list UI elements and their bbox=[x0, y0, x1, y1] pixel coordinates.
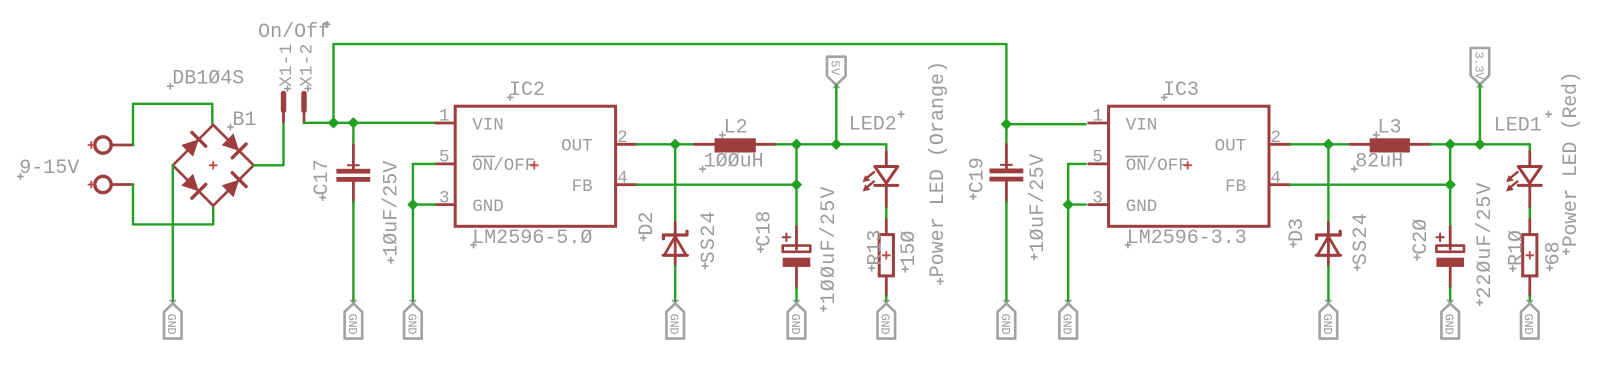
wire corner to LED1 bbox=[1529, 144, 1531, 152]
svg-text:FB: FB bbox=[572, 177, 593, 197]
wire 5V tag to net bbox=[835, 85, 837, 144]
pin 4 FB of IC3 bbox=[1269, 168, 1290, 188]
pin 3 GND of IC3 bbox=[1089, 188, 1109, 208]
svg-text:GND: GND bbox=[345, 314, 359, 335]
label Power LED (Orange) bbox=[927, 61, 950, 285]
svg-text:1: 1 bbox=[1092, 107, 1103, 127]
label 9-15V input bbox=[17, 157, 79, 180]
LED LED1 bbox=[1506, 152, 1541, 208]
svg-text:FB: FB bbox=[1225, 177, 1246, 197]
junction 3.3V net / supply tag bbox=[1475, 140, 1484, 149]
label C19 bbox=[967, 157, 990, 200]
ground symbol GND11 bbox=[1521, 300, 1539, 339]
wire down to C18 bbox=[795, 144, 797, 226]
supply symbol 3.3V bbox=[1471, 48, 1490, 88]
svg-text:82uH: 82uH bbox=[1355, 150, 1403, 173]
svg-text:R13: R13 bbox=[865, 230, 888, 266]
svg-text:X1-2: X1-2 bbox=[297, 44, 317, 87]
svg-text:GND: GND bbox=[1442, 314, 1456, 335]
svg-text:GND: GND bbox=[164, 314, 178, 335]
svg-text:3: 3 bbox=[1092, 188, 1103, 208]
svg-text:GND: GND bbox=[1060, 314, 1074, 335]
junction FB / C18 branch bbox=[792, 180, 801, 189]
wire down to D2 bbox=[674, 144, 676, 222]
pad P2 (input terminal -) bbox=[88, 176, 133, 192]
wire 3.3V tag to net bbox=[1479, 84, 1481, 144]
wire corner to LED2 bbox=[885, 144, 887, 152]
capacitor C17 bbox=[336, 145, 370, 202]
svg-text:4: 4 bbox=[1271, 168, 1282, 188]
wire riser to top rail bbox=[332, 44, 334, 123]
resistor R10 bbox=[1523, 219, 1537, 296]
capacitor C20 (electrolytic) bbox=[1436, 227, 1464, 289]
label IC3 bbox=[1161, 79, 1199, 102]
ground symbol GND3 bbox=[404, 300, 422, 339]
ground symbol GND9 bbox=[1320, 300, 1338, 339]
ground symbol GND4 bbox=[666, 300, 684, 339]
value SS24 bbox=[698, 211, 721, 269]
svg-text:LM2596-3.3: LM2596-3.3 bbox=[1127, 227, 1247, 250]
op-amp regulator IC2 LM2596 block bbox=[455, 106, 615, 226]
junction VIN rail / C17 bbox=[349, 118, 358, 127]
svg-text:GND: GND bbox=[1126, 197, 1158, 217]
svg-text:OUT: OUT bbox=[561, 137, 593, 157]
diode D2 SS24 (schottky) bbox=[663, 223, 688, 267]
pin 4 FB of IC2 bbox=[616, 168, 637, 188]
connector pin X1-1 bbox=[281, 94, 286, 123]
label X1-1 bbox=[277, 44, 297, 92]
label D2 bbox=[636, 212, 659, 242]
svg-text:OUT: OUT bbox=[1215, 137, 1247, 157]
svg-text:15Ø: 15Ø bbox=[898, 231, 921, 267]
value LM2596-3.3 bbox=[1125, 227, 1247, 250]
svg-text:SS24: SS24 bbox=[698, 211, 721, 263]
wire bridge DC+ out bbox=[254, 164, 284, 166]
svg-text:2: 2 bbox=[617, 128, 628, 148]
wire C20 to ground bbox=[1449, 288, 1451, 303]
svg-text:DB1Ø4S: DB1Ø4S bbox=[172, 68, 244, 91]
wire L3 to LED1 branch (3.3V net) bbox=[1431, 143, 1530, 145]
junction IC2 pin3 bbox=[408, 200, 417, 209]
wire IC3 pin3 bbox=[1068, 203, 1086, 205]
wire IC3 OUT to L3 bbox=[1290, 143, 1350, 145]
label LED2 bbox=[849, 111, 905, 137]
wire C18 to ground bbox=[795, 288, 797, 303]
pin 3 GND of IC2 bbox=[435, 188, 455, 208]
pin 1 VIN of IC2 bbox=[435, 107, 455, 127]
wire X1-2 to IC2 VIN bbox=[304, 122, 435, 124]
svg-text:GND: GND bbox=[667, 314, 681, 335]
connector pin X1-2 bbox=[301, 94, 306, 123]
wire LED2 to R13 bbox=[885, 208, 887, 219]
wire junction to C17 bbox=[352, 123, 354, 145]
value 220uF/25V bbox=[1474, 183, 1497, 306]
supply symbol 5V bbox=[827, 57, 846, 88]
svg-text:1ØuF/25V: 1ØuF/25V bbox=[1027, 154, 1050, 253]
diode D3 SS24 (schottky) bbox=[1316, 223, 1341, 267]
pad P1 (input terminal +) bbox=[88, 137, 133, 153]
wire IC3 pin5 bbox=[1068, 163, 1086, 165]
svg-text:R1Ø: R1Ø bbox=[1506, 230, 1529, 266]
svg-text:Power LED (Red): Power LED (Red) bbox=[1560, 71, 1583, 247]
wire IC2 FB to output sense bbox=[637, 183, 797, 185]
svg-text:ON/OFF: ON/OFF bbox=[1126, 156, 1189, 176]
resistor R13 bbox=[879, 219, 893, 296]
wire LED1 to R10 bbox=[1529, 208, 1531, 219]
wire IC2 pin3 bbox=[413, 203, 435, 205]
ground symbol GND2 bbox=[345, 300, 363, 339]
label Power LED (Red) bbox=[1560, 71, 1583, 255]
wire AC2 rise to bridge bbox=[212, 206, 214, 225]
svg-text:GND: GND bbox=[788, 314, 802, 335]
value SS24 bbox=[1350, 213, 1373, 271]
svg-text:L2: L2 bbox=[724, 117, 748, 140]
svg-text:GND: GND bbox=[1320, 314, 1334, 335]
svg-text:3.3V: 3.3V bbox=[1471, 52, 1485, 81]
ground symbol GND5 bbox=[788, 300, 806, 339]
svg-text:ON/OFF: ON/OFF bbox=[472, 156, 535, 176]
op-amp regulator IC3 LM2596 block bbox=[1109, 106, 1269, 226]
wire top rail (input bus) bbox=[334, 43, 1007, 45]
svg-text:C17: C17 bbox=[311, 159, 334, 195]
wire IC2 pin5 to pin3 bbox=[412, 164, 414, 205]
value 150 bbox=[898, 231, 921, 273]
wire IC3 gnd down bbox=[1067, 205, 1069, 303]
label L3 bbox=[1373, 117, 1402, 140]
wire IC2 gnd down bbox=[412, 205, 414, 303]
wire AC1 top bbox=[133, 103, 212, 105]
value 100uH bbox=[699, 150, 763, 173]
wire junction to C19 bbox=[1005, 124, 1007, 144]
capacitor C18 (electrolytic) bbox=[783, 227, 811, 289]
inductor L2 bbox=[695, 138, 777, 152]
svg-text:X1-1: X1-1 bbox=[277, 44, 297, 87]
label D3 bbox=[1286, 218, 1309, 248]
svg-text:C2Ø: C2Ø bbox=[1410, 219, 1433, 255]
wire pad2 to AC2 riser bbox=[132, 185, 134, 225]
junction input rail / C19 / IC3 VIN bbox=[1002, 120, 1011, 129]
junction OUT / D2 bbox=[671, 140, 680, 149]
svg-text:1ØØuF/25V: 1ØØuF/25V bbox=[818, 187, 841, 305]
label DB104S bbox=[167, 68, 244, 91]
svg-text:9-15V: 9-15V bbox=[19, 157, 79, 180]
wire R10 to ground bbox=[1529, 296, 1531, 303]
value 10uF/25V bbox=[380, 161, 403, 264]
label LED1 bbox=[1494, 111, 1552, 138]
ground symbol GND1 bbox=[164, 300, 182, 339]
svg-text:VIN: VIN bbox=[472, 115, 504, 135]
junction OUT / D3 bbox=[1324, 140, 1333, 149]
svg-text:1ØØuH: 1ØØuH bbox=[704, 150, 764, 173]
svg-text:LM2596-5.Ø: LM2596-5.Ø bbox=[472, 227, 592, 250]
junction 3.3V net / C20 bbox=[1446, 140, 1455, 149]
label B1 bbox=[227, 109, 256, 132]
wire top rail drop to IC3 bbox=[1005, 44, 1007, 124]
svg-text:GND: GND bbox=[878, 314, 892, 335]
label C18 bbox=[753, 211, 776, 253]
pin 2 OUT of IC2 bbox=[616, 128, 637, 148]
svg-text:LED2: LED2 bbox=[849, 114, 897, 137]
svg-text:LED1: LED1 bbox=[1494, 115, 1542, 138]
junction IC3 pin3 bbox=[1064, 200, 1073, 209]
wire IC3 FB to output sense bbox=[1290, 183, 1450, 185]
pin 2 OUT of IC3 bbox=[1269, 128, 1290, 148]
wire IC3 pin5 to pin3 bbox=[1067, 164, 1069, 205]
wire pad1 to AC1 riser bbox=[132, 104, 134, 145]
svg-text:5V: 5V bbox=[828, 60, 842, 76]
svg-text:1: 1 bbox=[439, 107, 450, 127]
svg-text:L3: L3 bbox=[1378, 117, 1402, 140]
value LM2596-5.0 bbox=[470, 227, 592, 250]
label C17 bbox=[311, 159, 334, 201]
value 10uF/25V bbox=[1027, 154, 1050, 260]
svg-text:GND: GND bbox=[472, 197, 504, 217]
label On/Off bbox=[258, 21, 330, 44]
ground symbol GND8 bbox=[1059, 300, 1077, 339]
svg-text:On/Off: On/Off bbox=[258, 21, 330, 44]
svg-text:D3: D3 bbox=[1286, 218, 1309, 242]
svg-text:C19: C19 bbox=[967, 157, 990, 193]
wire D3 anode to ground bbox=[1327, 266, 1329, 303]
pin 5 ON/OFF of IC2 bbox=[435, 148, 455, 168]
svg-text:SS24: SS24 bbox=[1350, 213, 1373, 265]
label R10 bbox=[1506, 230, 1529, 272]
value 82uH bbox=[1351, 150, 1403, 173]
wire AC1 drop to bridge bbox=[211, 104, 213, 125]
svg-text:GND: GND bbox=[998, 314, 1012, 335]
svg-text:1ØuF/25V: 1ØuF/25V bbox=[380, 161, 403, 257]
svg-text:IC2: IC2 bbox=[509, 79, 545, 102]
wire IC2 OUT to L2 bbox=[637, 143, 695, 145]
value 100uF/25V bbox=[818, 187, 841, 312]
label L2 bbox=[719, 117, 748, 140]
ground symbol GND7 bbox=[998, 300, 1016, 339]
wire AC2 bottom bbox=[133, 223, 213, 225]
svg-text:B1: B1 bbox=[232, 109, 256, 132]
label IC2 bbox=[507, 79, 545, 102]
junction 5V net / C18 bbox=[792, 140, 801, 149]
svg-text:GND: GND bbox=[1521, 314, 1535, 335]
wire DC+ rise to X1-1 bbox=[282, 122, 284, 165]
wire bridge DC- to ground bbox=[172, 165, 174, 302]
label C20 bbox=[1410, 219, 1433, 261]
label X1-2 bbox=[297, 44, 317, 92]
wire R13 to ground bbox=[885, 296, 887, 303]
wire down to C20 bbox=[1449, 144, 1451, 226]
wire C17 to ground bbox=[352, 202, 354, 303]
wire C19 to ground bbox=[1005, 202, 1007, 303]
ground symbol GND10 bbox=[1441, 300, 1459, 339]
junction VIN rail / top rail bbox=[329, 118, 338, 127]
wire D2 anode to ground bbox=[674, 266, 676, 303]
junction FB / C20 branch bbox=[1446, 180, 1455, 189]
ground symbol GND6 bbox=[878, 300, 896, 339]
svg-text:3: 3 bbox=[439, 188, 450, 208]
svg-text:5: 5 bbox=[439, 148, 450, 168]
wire IC2 pin5 bbox=[413, 163, 435, 165]
junction 5V net / supply tag bbox=[832, 140, 841, 149]
label R13 bbox=[865, 230, 888, 272]
svg-text:5: 5 bbox=[1092, 148, 1103, 168]
svg-text:GND: GND bbox=[404, 314, 418, 335]
svg-text:2: 2 bbox=[1271, 128, 1282, 148]
svg-text:22ØuF/25V: 22ØuF/25V bbox=[1474, 183, 1497, 299]
svg-text:4: 4 bbox=[617, 168, 628, 188]
LED LED2 bbox=[863, 152, 898, 208]
svg-text:VIN: VIN bbox=[1126, 115, 1158, 135]
svg-text:Power LED (Orange): Power LED (Orange) bbox=[927, 61, 950, 278]
wire down to D3 bbox=[1327, 144, 1329, 222]
svg-text:C18: C18 bbox=[753, 211, 776, 247]
pin 1 VIN of IC3 bbox=[1089, 107, 1109, 127]
inductor L3 bbox=[1350, 138, 1431, 152]
bridge rectifier B1 DB104S bbox=[173, 125, 254, 206]
wire L2 to LED2 branch (5V net) bbox=[776, 143, 886, 145]
wire to IC3 VIN bbox=[1006, 123, 1085, 125]
svg-text:D2: D2 bbox=[636, 212, 659, 236]
svg-text:IC3: IC3 bbox=[1163, 79, 1199, 102]
value 68 bbox=[1543, 241, 1566, 271]
capacitor C19 bbox=[990, 144, 1024, 202]
pin 5 ON/OFF of IC3 bbox=[1089, 148, 1109, 168]
